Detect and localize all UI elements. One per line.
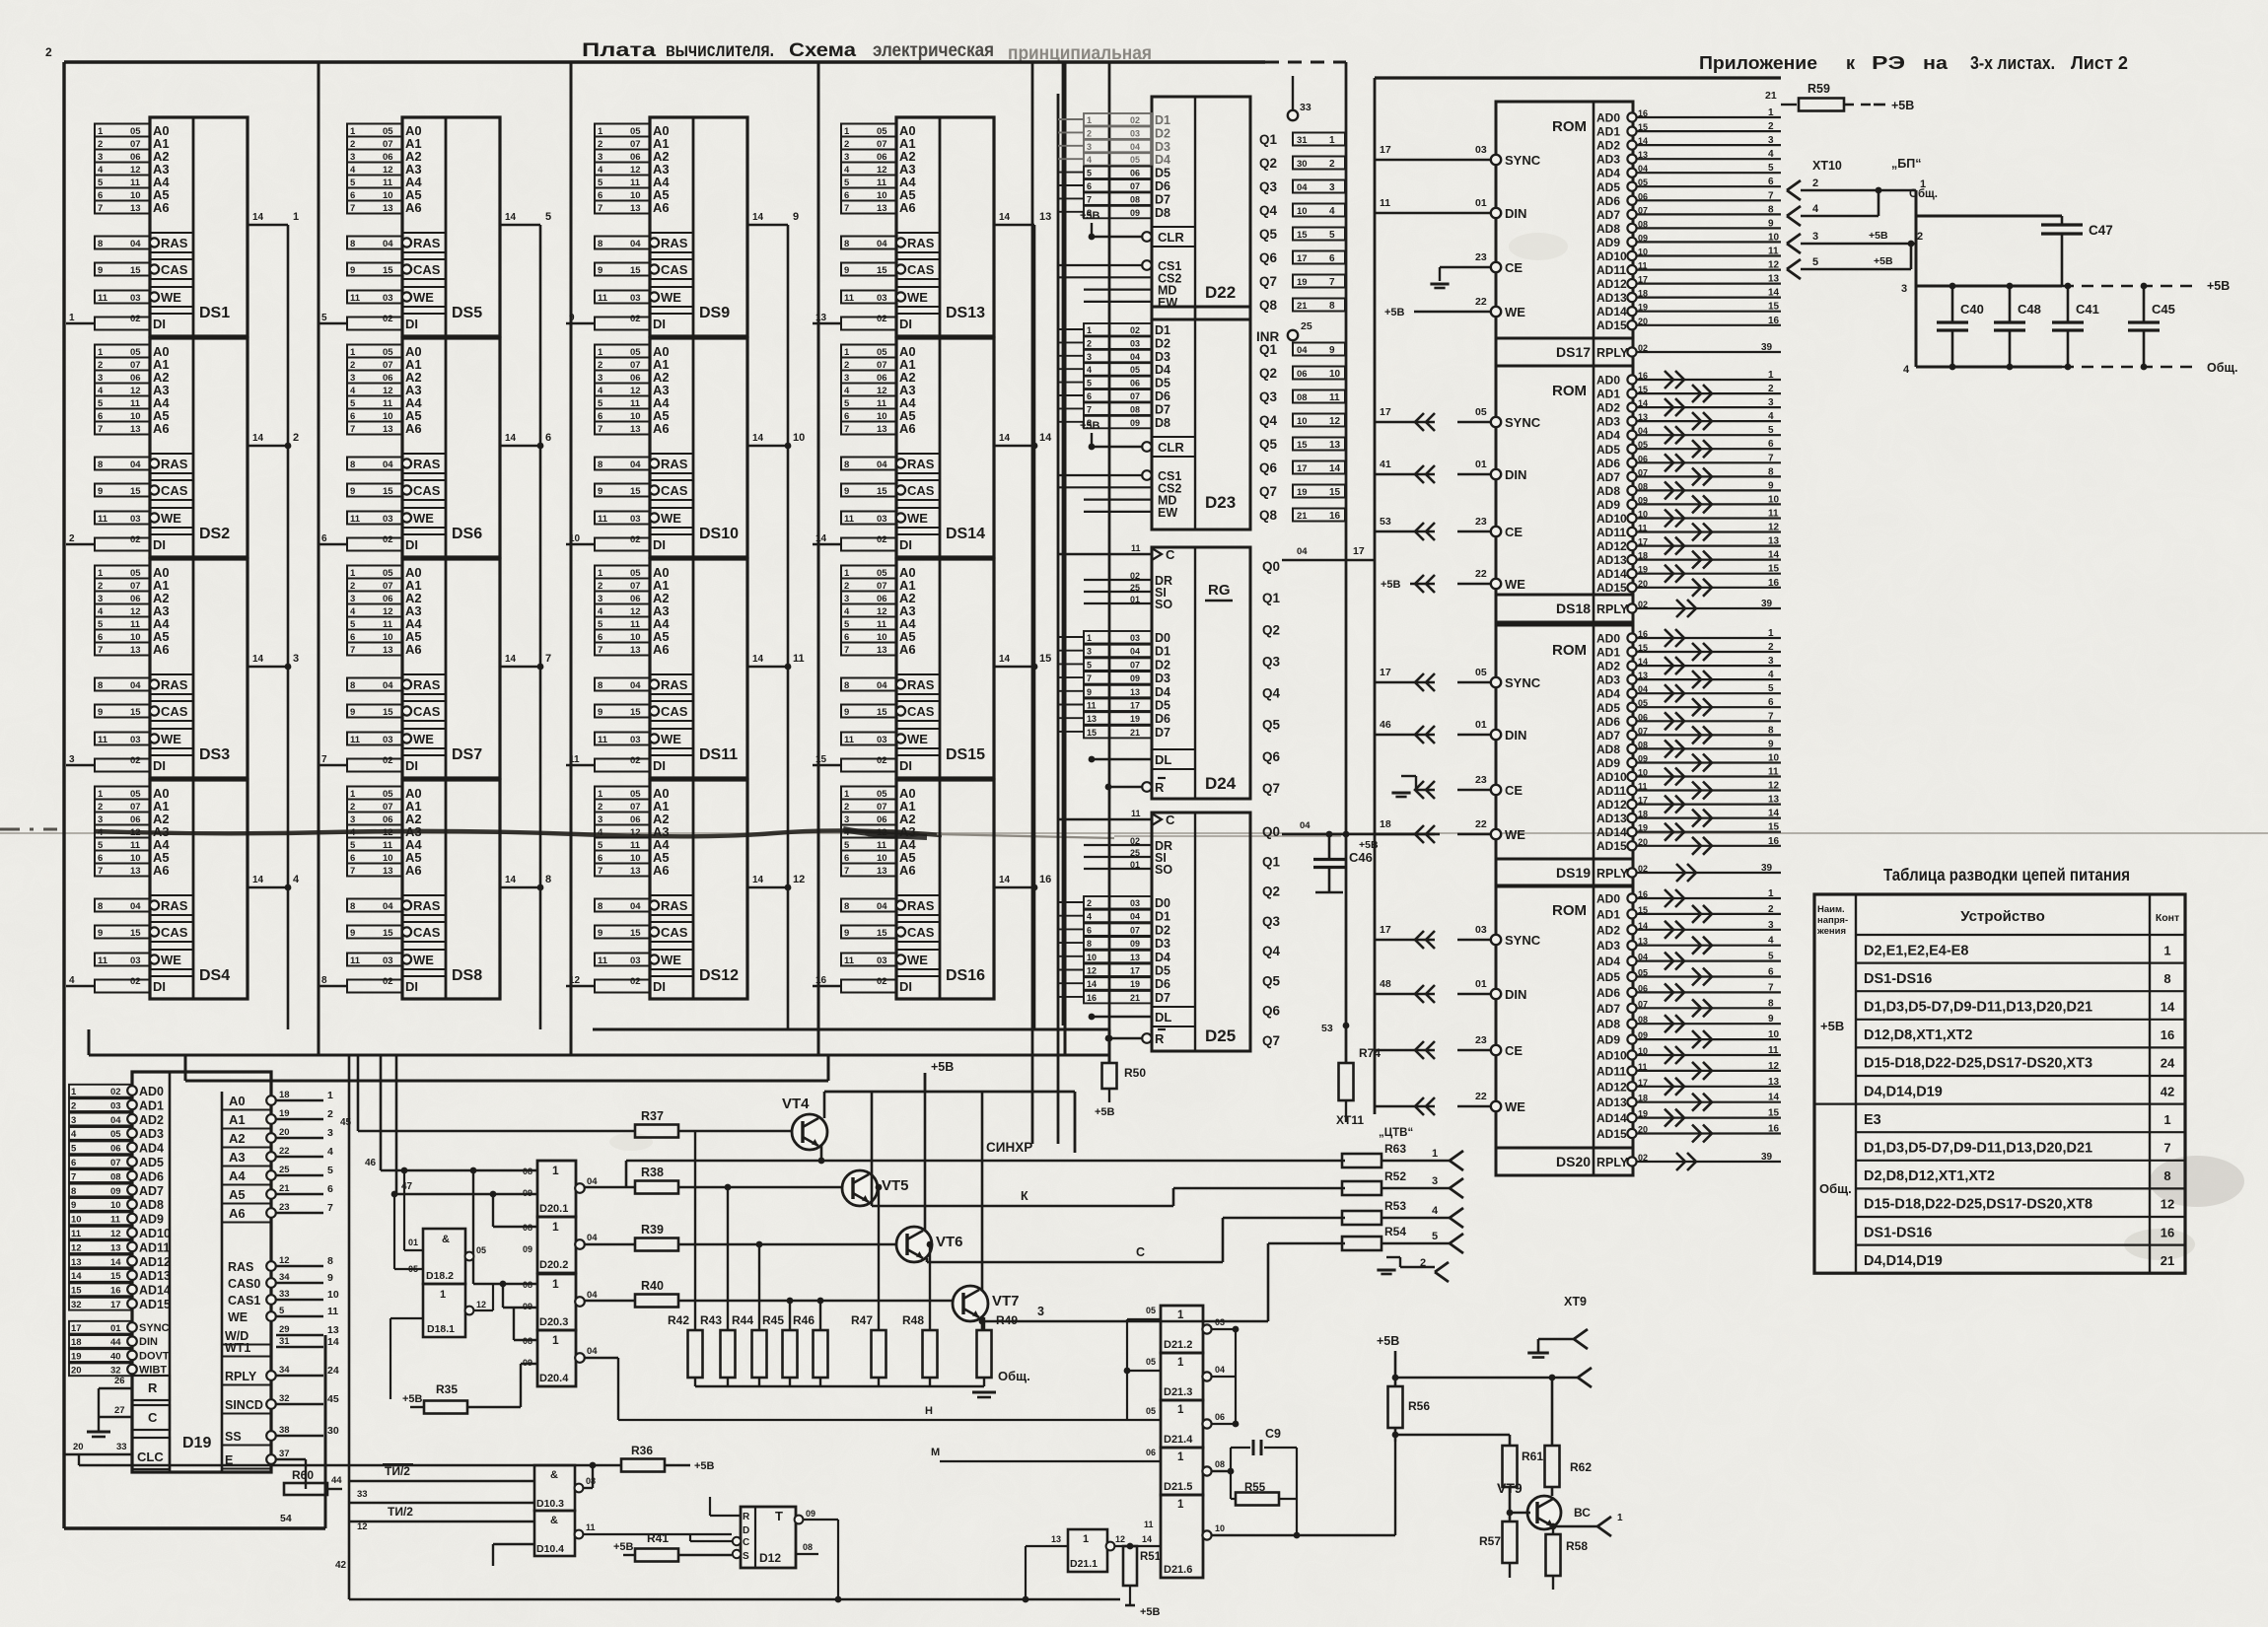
- svg-text:25: 25: [1301, 320, 1312, 332]
- svg-text:10: 10: [630, 190, 641, 201]
- DRAM chip DS14: [813, 338, 1052, 557]
- svg-text:07: 07: [383, 139, 393, 150]
- svg-text:03: 03: [630, 293, 641, 304]
- svg-text:15: 15: [1039, 653, 1051, 665]
- svg-text:3: 3: [98, 814, 103, 825]
- svg-text:3: 3: [350, 814, 355, 825]
- svg-text:10: 10: [877, 190, 887, 201]
- svg-text:4: 4: [1768, 670, 1774, 680]
- svg-text:07: 07: [130, 581, 141, 592]
- svg-text:+5В: +5В: [2207, 279, 2230, 293]
- svg-text:2: 2: [45, 45, 52, 59]
- svg-text:03: 03: [130, 514, 141, 525]
- svg-text:2: 2: [1768, 642, 1774, 653]
- svg-text:AD10: AD10: [139, 1227, 171, 1240]
- svg-text:01: 01: [110, 1323, 121, 1334]
- svg-text:AD5: AD5: [139, 1156, 164, 1169]
- DRAM chip DS4: [66, 780, 300, 999]
- svg-text:01: 01: [1475, 719, 1487, 731]
- svg-text:42: 42: [2161, 1084, 2174, 1098]
- svg-text:CAS: CAS: [907, 262, 935, 277]
- DRAM chip DS15: [813, 559, 1051, 778]
- svg-text:19: 19: [1130, 979, 1140, 989]
- svg-text:04: 04: [383, 901, 393, 912]
- svg-text:13: 13: [130, 203, 141, 214]
- svg-text:10: 10: [877, 632, 887, 643]
- svg-text:1: 1: [2163, 943, 2170, 957]
- svg-text:D20.4: D20.4: [539, 1373, 569, 1384]
- svg-text:М: М: [931, 1447, 940, 1458]
- svg-text:4: 4: [1432, 1205, 1439, 1217]
- svg-text:Q5: Q5: [1259, 227, 1278, 242]
- svg-text:ХТ11: ХТ11: [1336, 1113, 1364, 1127]
- svg-text:03: 03: [110, 1100, 121, 1111]
- ROM chip DS17: [1375, 102, 1781, 366]
- svg-text:VT4: VT4: [782, 1096, 810, 1112]
- transistor VT9: [1497, 1480, 1561, 1529]
- svg-text:11: 11: [383, 398, 393, 409]
- logic gate D20.3: [523, 1274, 598, 1330]
- ROM chip DS19: [1375, 625, 1781, 886]
- svg-text:AD2: AD2: [1596, 660, 1620, 673]
- svg-text:2: 2: [1812, 177, 1818, 189]
- svg-text:D6: D6: [1155, 389, 1170, 403]
- svg-text:RPLY: RPLY: [1596, 346, 1629, 360]
- ROM chip DS20: [1375, 885, 1781, 1175]
- bottom long wire: [349, 1596, 1120, 1603]
- svg-text:02: 02: [110, 1087, 121, 1097]
- svg-text:D24: D24: [1205, 774, 1237, 793]
- svg-text:D3: D3: [1155, 350, 1170, 364]
- svg-text:+5В: +5В: [931, 1060, 954, 1074]
- svg-text:жения: жения: [1816, 926, 1846, 937]
- svg-text:Q1: Q1: [1262, 854, 1281, 869]
- svg-text:05: 05: [1146, 1306, 1156, 1315]
- svg-text:D7: D7: [1155, 726, 1170, 740]
- svg-text:AD2: AD2: [1596, 401, 1620, 415]
- svg-text:8: 8: [2163, 1168, 2170, 1183]
- svg-text:15: 15: [383, 928, 393, 939]
- svg-text:DI: DI: [153, 317, 166, 331]
- svg-text:ВС: ВС: [1574, 1506, 1591, 1520]
- svg-text:AD6: AD6: [1596, 194, 1620, 208]
- svg-text:2: 2: [350, 360, 355, 371]
- svg-text:WE: WE: [907, 511, 928, 526]
- svg-text:01: 01: [1475, 197, 1487, 209]
- svg-text:6: 6: [598, 632, 602, 643]
- DRAM chip DS9: [566, 117, 799, 336]
- svg-text:S: S: [743, 1551, 749, 1562]
- svg-text:AD3: AD3: [1596, 153, 1620, 167]
- svg-text:11: 11: [350, 514, 361, 525]
- svg-text:D5: D5: [1155, 964, 1170, 978]
- svg-text:06: 06: [630, 152, 641, 163]
- svg-text:8: 8: [350, 901, 355, 912]
- svg-text:R36: R36: [631, 1444, 653, 1457]
- svg-text:2: 2: [1768, 121, 1774, 132]
- svg-text:D18.2: D18.2: [426, 1270, 454, 1282]
- column bus wire: [537, 62, 571, 1029]
- svg-text:6: 6: [350, 190, 355, 201]
- svg-text:10: 10: [130, 853, 141, 864]
- svg-text:DS18: DS18: [1556, 601, 1591, 616]
- svg-text:3: 3: [1768, 397, 1774, 408]
- svg-text:45: 45: [327, 1393, 339, 1405]
- svg-text:D4: D4: [1155, 685, 1170, 699]
- svg-text:8: 8: [1768, 204, 1774, 215]
- svg-text:14: 14: [999, 212, 1011, 223]
- svg-text:04: 04: [130, 460, 141, 470]
- svg-text:04: 04: [1130, 352, 1140, 362]
- svg-text:14: 14: [999, 654, 1011, 665]
- svg-text:15: 15: [1768, 564, 1780, 575]
- svg-text:4: 4: [350, 165, 356, 176]
- svg-text:11: 11: [630, 177, 641, 188]
- svg-text:11: 11: [130, 840, 141, 851]
- svg-text:Q7: Q7: [1262, 1033, 1280, 1048]
- svg-text:11: 11: [98, 955, 108, 966]
- svg-text:10: 10: [383, 632, 393, 643]
- svg-text:14: 14: [1329, 463, 1341, 474]
- svg-text:09: 09: [1130, 418, 1140, 428]
- svg-text:5: 5: [1087, 169, 1092, 178]
- svg-text:12: 12: [877, 165, 887, 176]
- svg-text:RAS: RAS: [413, 677, 441, 692]
- svg-text:15: 15: [1768, 302, 1780, 313]
- resistor R49: [977, 1313, 1019, 1386]
- svg-text:16: 16: [1768, 836, 1780, 847]
- svg-text:04: 04: [1130, 912, 1140, 922]
- svg-text:AD12: AD12: [1596, 798, 1627, 812]
- svg-text:12: 12: [110, 1229, 121, 1239]
- svg-text:14: 14: [999, 433, 1011, 444]
- svg-text:AD6: AD6: [139, 1169, 164, 1183]
- svg-text:AD0: AD0: [1596, 892, 1620, 906]
- svg-text:9: 9: [71, 1200, 76, 1211]
- resistor R56: [1388, 1386, 1431, 1442]
- svg-text:8: 8: [327, 1255, 333, 1267]
- svg-text:Общ.: Общ.: [1819, 1181, 1852, 1196]
- svg-text:R57: R57: [1479, 1534, 1501, 1548]
- svg-text:1: 1: [1768, 628, 1774, 639]
- svg-text:A6: A6: [653, 863, 670, 878]
- svg-text:EW: EW: [1158, 506, 1177, 520]
- svg-text:04: 04: [110, 1115, 121, 1126]
- svg-text:02: 02: [383, 976, 393, 987]
- svg-text:5: 5: [844, 840, 850, 851]
- svg-text:D7: D7: [1155, 991, 1170, 1005]
- svg-text:13: 13: [1768, 1077, 1780, 1088]
- svg-text:WE: WE: [413, 511, 434, 526]
- svg-text:21: 21: [279, 1183, 290, 1194]
- svg-text:14: 14: [505, 212, 517, 223]
- svg-text:02: 02: [877, 755, 887, 766]
- svg-text:R50: R50: [1124, 1066, 1146, 1080]
- svg-text:12: 12: [130, 165, 141, 176]
- svg-text:03: 03: [630, 955, 641, 966]
- resistor R45: [762, 1298, 798, 1386]
- svg-text:37: 37: [279, 1449, 290, 1459]
- svg-text:2: 2: [1768, 384, 1774, 394]
- svg-text:03: 03: [130, 955, 141, 966]
- svg-text:15: 15: [877, 486, 887, 497]
- svg-text:RAS: RAS: [907, 898, 935, 913]
- DRAM chip DS16: [813, 780, 1051, 999]
- resistor R61: [1503, 1446, 1544, 1521]
- svg-text:RAS: RAS: [161, 898, 188, 913]
- svg-text:17: 17: [110, 1300, 121, 1310]
- svg-text:6: 6: [844, 190, 849, 201]
- svg-text:CAS0: CAS0: [228, 1277, 260, 1291]
- svg-text:3: 3: [844, 152, 849, 163]
- svg-text:D4,D14,D19: D4,D14,D19: [1864, 1084, 1943, 1099]
- svg-text:AD14: AD14: [1596, 1111, 1627, 1125]
- svg-text:AD11: AD11: [139, 1240, 170, 1254]
- svg-text:AD7: AD7: [1596, 470, 1620, 484]
- svg-text:05: 05: [383, 347, 393, 358]
- svg-text:02: 02: [630, 314, 641, 324]
- svg-text:DI: DI: [405, 758, 418, 773]
- svg-text:13: 13: [383, 866, 393, 877]
- svg-text:5: 5: [844, 619, 850, 630]
- svg-text:1: 1: [598, 347, 603, 358]
- svg-text:D8: D8: [1155, 206, 1170, 220]
- svg-text:04: 04: [1297, 182, 1308, 193]
- svg-text:ROM: ROM: [1552, 902, 1587, 919]
- svg-text:12: 12: [71, 1242, 82, 1253]
- svg-text:AD6: AD6: [1596, 457, 1620, 470]
- svg-text:8: 8: [844, 901, 849, 912]
- svg-text:RAS: RAS: [228, 1260, 253, 1274]
- svg-text:2: 2: [1329, 159, 1335, 170]
- svg-text:Q6: Q6: [1262, 749, 1281, 764]
- svg-text:AD7: AD7: [1596, 208, 1620, 222]
- svg-text:C: C: [1166, 813, 1175, 827]
- svg-text:07: 07: [1130, 181, 1140, 191]
- svg-text:D21.6: D21.6: [1164, 1564, 1192, 1576]
- +5V stem right: [1377, 1334, 1399, 1386]
- svg-text:3: 3: [1087, 142, 1092, 152]
- svg-text:7: 7: [98, 203, 103, 214]
- svg-text:5: 5: [98, 177, 104, 188]
- svg-text:DS11: DS11: [699, 746, 738, 763]
- svg-text:18: 18: [1380, 818, 1391, 830]
- svg-text:10: 10: [877, 411, 887, 422]
- svg-text:03: 03: [383, 514, 393, 525]
- svg-text:13: 13: [1768, 795, 1780, 806]
- svg-text:Q0: Q0: [1262, 559, 1280, 574]
- svg-text:24: 24: [2161, 1056, 2175, 1071]
- svg-text:15: 15: [630, 486, 641, 497]
- svg-text:D1,D3,D5-D7,D9-D11,D13,D20,D21: D1,D3,D5-D7,D9-D11,D13,D20,D21: [1864, 1141, 2092, 1157]
- svg-text:11: 11: [383, 619, 393, 630]
- register D25: [1058, 809, 1281, 1051]
- svg-text:5: 5: [1768, 163, 1774, 174]
- svg-text:31: 31: [279, 1336, 290, 1347]
- svg-text:DS17: DS17: [1556, 344, 1591, 360]
- svg-text:04: 04: [383, 460, 393, 470]
- svg-text:8: 8: [98, 901, 103, 912]
- capacitor C48: [1994, 283, 2041, 371]
- svg-text:07: 07: [877, 360, 887, 371]
- svg-text:Н: Н: [925, 1405, 933, 1417]
- svg-text:AD11: AD11: [1596, 1064, 1626, 1078]
- resistor R46: [793, 1298, 828, 1386]
- svg-text:WE: WE: [661, 732, 681, 746]
- svg-text:AD4: AD4: [139, 1142, 164, 1156]
- svg-text:02: 02: [630, 534, 641, 545]
- svg-text:DS4: DS4: [199, 967, 230, 984]
- svg-text:D2,E1,E2,E4-E8: D2,E1,E2,E4-E8: [1864, 943, 1968, 958]
- svg-text:ХТ10: ХТ10: [1812, 159, 1842, 173]
- svg-text:5: 5: [98, 840, 104, 851]
- svg-text:12: 12: [383, 606, 393, 617]
- svg-text:15: 15: [1297, 230, 1308, 241]
- svg-text:8: 8: [98, 680, 103, 691]
- svg-text:CAS: CAS: [161, 262, 188, 277]
- svg-text:11: 11: [383, 177, 393, 188]
- svg-text:6: 6: [545, 432, 551, 444]
- svg-text:1: 1: [1087, 633, 1092, 643]
- svg-text:13: 13: [130, 866, 141, 877]
- svg-text:CE: CE: [1505, 1043, 1523, 1058]
- svg-text:11: 11: [586, 1522, 596, 1532]
- svg-text:SYNC: SYNC: [139, 1322, 170, 1334]
- svg-text:AD4: AD4: [1596, 955, 1620, 968]
- svg-text:10: 10: [130, 411, 141, 422]
- svg-text:DI: DI: [899, 758, 912, 773]
- svg-text:07: 07: [877, 802, 887, 813]
- svg-text:A6: A6: [153, 642, 170, 657]
- svg-text:AD11: AD11: [1596, 784, 1626, 798]
- svg-text:11: 11: [1768, 1045, 1779, 1056]
- svg-text:5: 5: [844, 398, 850, 409]
- svg-text:1: 1: [2163, 1112, 2170, 1127]
- svg-text:04: 04: [630, 460, 641, 470]
- svg-text:9: 9: [844, 265, 849, 276]
- svg-text:5: 5: [98, 619, 104, 630]
- svg-text:D21.1: D21.1: [1070, 1558, 1098, 1570]
- svg-text:21: 21: [1130, 993, 1140, 1003]
- svg-text:D4: D4: [1155, 153, 1170, 167]
- svg-text:04: 04: [383, 680, 393, 691]
- svg-text:54: 54: [280, 1513, 292, 1524]
- column bus wire: [785, 62, 818, 1029]
- svg-text:13: 13: [877, 645, 887, 656]
- svg-text:11: 11: [383, 840, 393, 851]
- svg-text:7: 7: [71, 1171, 76, 1182]
- svg-text:AD8: AD8: [1596, 1018, 1620, 1031]
- svg-text:9: 9: [1768, 1014, 1774, 1025]
- svg-text:3: 3: [98, 373, 103, 384]
- svg-text:32: 32: [279, 1393, 290, 1404]
- counter D23: [1058, 307, 1345, 530]
- svg-text:8: 8: [1768, 466, 1774, 477]
- gate D21 outputs: [1202, 1317, 1239, 1540]
- svg-text:12: 12: [476, 1300, 486, 1309]
- svg-text:05: 05: [630, 789, 641, 800]
- svg-text:6: 6: [350, 853, 355, 864]
- svg-text:4: 4: [598, 606, 603, 617]
- svg-text:07: 07: [877, 139, 887, 150]
- svg-text:3: 3: [598, 594, 602, 604]
- svg-text:22: 22: [1475, 1091, 1487, 1102]
- svg-text:5: 5: [844, 177, 850, 188]
- svg-text:1: 1: [327, 1090, 333, 1101]
- svg-text:14: 14: [505, 433, 517, 444]
- svg-text:1: 1: [598, 789, 603, 800]
- svg-text:11: 11: [1380, 197, 1390, 209]
- svg-text:15: 15: [877, 265, 887, 276]
- svg-text:+5В: +5В: [1869, 230, 1888, 242]
- svg-text:02: 02: [630, 976, 641, 987]
- svg-text:DL: DL: [1155, 752, 1171, 767]
- svg-text:01: 01: [1475, 459, 1487, 470]
- svg-text:8: 8: [844, 680, 849, 691]
- svg-text:AD1: AD1: [1596, 388, 1620, 401]
- svg-text:39: 39: [1761, 863, 1773, 874]
- resistor R57: [1479, 1521, 1518, 1578]
- svg-text:12: 12: [630, 165, 641, 176]
- svg-text:AD1: AD1: [139, 1098, 164, 1112]
- svg-text:11: 11: [350, 735, 361, 745]
- svg-text:12: 12: [1115, 1534, 1125, 1544]
- svg-text:14: 14: [252, 654, 264, 665]
- svg-text:9: 9: [98, 928, 103, 939]
- svg-text:1: 1: [844, 126, 850, 137]
- svg-text:+5В: +5В: [402, 1393, 423, 1405]
- svg-text:5: 5: [1087, 379, 1092, 389]
- svg-text:CAS: CAS: [161, 925, 188, 940]
- svg-text:1: 1: [552, 1333, 559, 1347]
- svg-text:WE: WE: [907, 290, 928, 305]
- svg-text:6: 6: [327, 1183, 333, 1195]
- svg-text:13: 13: [327, 1324, 339, 1336]
- svg-text:23: 23: [1475, 516, 1487, 528]
- svg-text:34: 34: [279, 1365, 290, 1376]
- svg-text:C: C: [743, 1537, 749, 1548]
- svg-text:16: 16: [1768, 316, 1780, 326]
- svg-text:4: 4: [98, 827, 104, 838]
- svg-text:11: 11: [877, 619, 887, 630]
- svg-text:D2: D2: [1155, 923, 1170, 937]
- svg-text:17: 17: [1380, 406, 1391, 418]
- svg-text:03: 03: [1130, 898, 1140, 908]
- svg-text:CLR: CLR: [1158, 230, 1184, 245]
- svg-text:+5В: +5В: [1874, 255, 1893, 267]
- svg-text:DL: DL: [1155, 1010, 1171, 1025]
- svg-text:44: 44: [331, 1475, 342, 1486]
- svg-text:AD15: AD15: [1596, 839, 1627, 853]
- svg-text:5: 5: [598, 398, 603, 409]
- svg-text:7: 7: [1087, 404, 1092, 414]
- svg-text:13: 13: [130, 645, 141, 656]
- svg-text:8: 8: [1087, 939, 1092, 949]
- svg-text:19: 19: [1297, 277, 1308, 288]
- svg-text:10: 10: [1768, 494, 1780, 505]
- svg-text:A1: A1: [229, 1112, 246, 1127]
- svg-text:DS19: DS19: [1556, 865, 1591, 881]
- svg-text:10: 10: [1768, 232, 1780, 243]
- svg-text:23: 23: [1475, 251, 1487, 263]
- svg-text:6: 6: [1329, 253, 1335, 264]
- svg-text:06: 06: [877, 373, 887, 384]
- svg-text:12: 12: [1768, 781, 1780, 792]
- svg-text:D4: D4: [1155, 951, 1170, 964]
- svg-text:1: 1: [69, 313, 75, 323]
- svg-text:WE: WE: [413, 290, 434, 305]
- svg-text:1: 1: [844, 789, 850, 800]
